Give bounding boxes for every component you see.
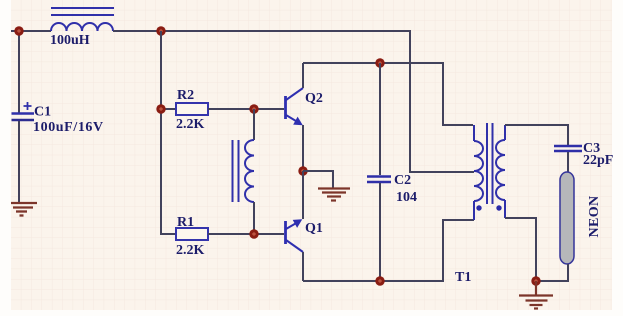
transistor Q1 [286,219,304,252]
wire feedback coil down to R1 node [253,202,255,234]
wire left rail to R2 [161,108,176,110]
wire Q1 emitter up to common node [302,171,304,219]
svg-text:NEON: NEON [587,195,602,237]
capacitor C2 [367,177,391,183]
wire R2 to Q2 base [208,108,284,110]
svg-text:2.2K: 2.2K [176,117,205,132]
junction at R2 left [156,104,165,113]
junction at neon ground node [531,276,540,285]
wire R1 to Q1 base [208,233,284,235]
inductor 100uH [51,8,114,31]
transformer T1 phase dot primary [476,205,481,210]
neon lamp DS1 [560,172,574,264]
ground below C1 [11,203,37,216]
ground below neon [519,281,553,309]
wire Q2 emitter down to common node [302,125,304,171]
wire bottom rail to transformer primary bottom [303,220,474,281]
junction at C1 branch [14,26,23,35]
junction at Q1 base node [249,229,258,238]
wire top rail from left terminal to inductor [11,30,51,32]
junction at C2 bottom [375,276,384,285]
wire common node to ground stem [303,171,333,188]
wire Q2 collector up [302,63,304,88]
svg-text:C1: C1 [34,105,51,120]
svg-text:R2: R2 [177,88,194,103]
wire Q1 collector down [302,252,304,281]
svg-text:R1: R1 [177,215,194,230]
wire secondary top to C3 [505,125,568,145]
wire neon bottom to junction [536,264,568,281]
ground mid [318,189,350,201]
svg-text:100uH: 100uH [50,33,90,48]
wire secondary bottom down [505,218,536,281]
wire left rail down [161,31,176,234]
wire top rail from inductor to corner, down to primary center tap [113,31,474,172]
svg-text:22pF: 22pF [583,153,613,168]
transformer T1 secondary winding [496,125,505,218]
svg-text:104: 104 [396,190,417,205]
capacitor C1 [12,102,35,120]
wire base node down to feedback coil [253,109,255,140]
resistor R1 [176,228,208,240]
wire C1 branch down [18,31,20,113]
transformer T1 phase dot secondary [496,205,501,210]
transformer T1 core [487,123,493,204]
junction at left rail top [156,26,165,35]
transistor Q2 [286,88,304,125]
wire C2 top lead [379,63,381,175]
resistor R2 [176,103,208,115]
junction at C2 top [375,58,384,67]
svg-text:2.2K: 2.2K [176,243,205,258]
svg-text:Q1: Q1 [305,221,323,236]
capacitor C3 [554,146,582,151]
junction at Q2 base node [249,104,258,113]
inductor feedback winding [233,140,255,202]
wire collector rail to transformer primary top [303,63,473,125]
svg-text:C2: C2 [394,173,411,188]
svg-text:100uF/16V: 100uF/16V [33,120,104,135]
junction at common emitter node [298,166,307,175]
wire C2 bottom lead [379,183,381,281]
transformer T1 primary winding [474,125,483,220]
svg-text:Q2: Q2 [305,91,323,106]
wire C1 to ground [18,121,20,202]
svg-text:T1: T1 [455,270,471,285]
wire C3 to neon lamp [567,152,569,172]
